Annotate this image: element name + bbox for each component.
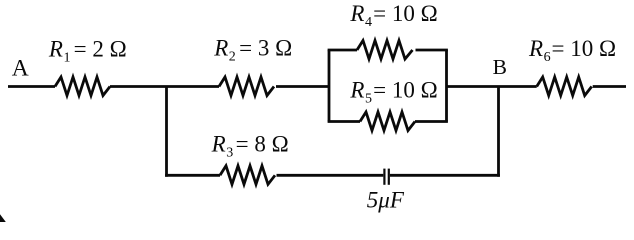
wire: R3 to capacitor — [277, 174, 384, 177]
label R5 = 10 ohm — [349, 78, 437, 107]
decorative corner mark bottom-left — [0, 214, 6, 222]
resistor R2 — [219, 77, 274, 96]
wire: left lead from A to R1 — [8, 85, 55, 88]
wire: box left edge — [328, 50, 331, 122]
wire: box bottom edge right segment — [415, 120, 448, 123]
svg-text:= 3 Ω: = 3 Ω — [239, 36, 292, 61]
svg-text:= 2 Ω: = 2 Ω — [74, 37, 127, 62]
wire: R2 to parallel box left edge — [276, 85, 330, 88]
svg-text:A: A — [12, 55, 29, 81]
wire: bottom branch to R3 — [165, 174, 220, 177]
svg-text:R: R — [349, 78, 364, 103]
svg-text:R: R — [528, 36, 543, 61]
svg-text:4: 4 — [365, 15, 372, 30]
resistor R3 — [220, 166, 275, 185]
resistor R6 — [537, 77, 592, 96]
svg-text:R: R — [48, 37, 63, 62]
svg-text:= 10 Ω: = 10 Ω — [373, 1, 438, 26]
label R1 = 2 ohm — [48, 37, 127, 66]
capacitor C1 right plate — [388, 169, 390, 185]
wire: box top edge right segment — [416, 49, 448, 52]
label R4 = 10 ohm — [349, 1, 437, 30]
wire: box top edge left segment — [328, 49, 357, 52]
wire: junction vertical drop to bottom branch — [165, 87, 168, 177]
label R6 = 10 ohm — [528, 36, 616, 65]
wire: box bottom edge left segment — [328, 120, 360, 123]
capacitor C1 left plate — [383, 169, 385, 185]
svg-text:2: 2 — [229, 50, 236, 65]
wire: vertical rise to node B — [497, 87, 500, 177]
svg-text:5μF: 5μF — [367, 187, 405, 212]
svg-text:= 8 Ω: = 8 Ω — [236, 132, 289, 157]
wire: box right edge — [445, 50, 448, 122]
svg-text:R: R — [211, 132, 226, 157]
resistor R4 — [357, 41, 413, 60]
svg-text:= 10 Ω: = 10 Ω — [373, 78, 438, 103]
label R3 = 8 ohm — [211, 132, 289, 161]
resistor R1 — [55, 77, 110, 96]
svg-text:R: R — [349, 1, 364, 26]
svg-text:5: 5 — [365, 92, 372, 107]
wire: R1 to junction to R2 — [110, 85, 219, 88]
resistor R5 — [360, 112, 415, 131]
svg-text:R: R — [213, 36, 228, 61]
wire: box right edge to node B and on to R6 — [447, 85, 537, 88]
svg-text:B: B — [493, 55, 507, 79]
wire: capacitor to bottom-right corner — [390, 174, 500, 177]
svg-text:1: 1 — [64, 51, 71, 66]
svg-text:6: 6 — [544, 50, 551, 65]
label R2 = 3 ohm — [213, 36, 292, 65]
svg-text:3: 3 — [226, 146, 233, 161]
svg-text:= 10 Ω: = 10 Ω — [552, 36, 617, 61]
wire: R6 to right edge — [593, 85, 626, 88]
